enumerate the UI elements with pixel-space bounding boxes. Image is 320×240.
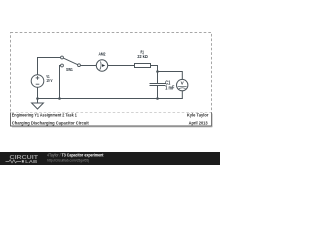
svg-text:http://circuitlab.com/c5gw55j: http://circuitlab.com/c5gw55j xyxy=(47,157,89,162)
svg-text:10 V: 10 V xyxy=(46,78,52,83)
wire junction to voltmeter top xyxy=(158,72,183,80)
svg-text:Kyle Taylor: Kyle Taylor xyxy=(187,113,209,118)
wire R1 to capacitor branch xyxy=(151,66,158,84)
node junction V1/ground xyxy=(36,97,39,100)
node junction discharge wire xyxy=(58,97,61,100)
node junction R1/C1/voltmeter xyxy=(156,70,159,73)
svg-text:SW1: SW1 xyxy=(66,67,73,72)
svg-text:1 mF: 1 mF xyxy=(165,85,174,91)
svg-text:LAB: LAB xyxy=(25,159,37,164)
CircuitLab logo zigzag xyxy=(6,160,22,163)
wire top rail from V1 to switch throw xyxy=(38,58,61,75)
wire switch common to ammeter xyxy=(80,65,96,67)
wire ammeter to R1 xyxy=(108,65,135,67)
svg-text:Engineering Y1 Assignment 2 Ta: Engineering Y1 Assignment 2 Task 1 xyxy=(12,113,78,118)
switch SW1 xyxy=(61,56,64,59)
wire capacitor bottom to ground rail xyxy=(157,86,159,99)
node junction capacitor bottom xyxy=(156,97,159,100)
wire discharge branch from switch lower throw down to ground rail xyxy=(60,66,61,99)
svg-text:April 2013: April 2013 xyxy=(189,120,209,125)
schematic dashed print border xyxy=(11,33,212,113)
voltmeter VM1 xyxy=(177,79,188,90)
ammeter AM2 xyxy=(96,60,107,71)
capacitor C1 xyxy=(150,83,166,85)
wire voltmeter bottom to ground rail xyxy=(181,91,183,99)
footer bar xyxy=(0,152,220,165)
resistor R1 xyxy=(135,64,151,68)
ground xyxy=(37,99,39,104)
title block frame xyxy=(11,113,212,127)
wire V1 bottom to ground rail xyxy=(37,87,39,98)
svg-text:Charging Discharging Capacitor: Charging Discharging Capacitor Circuit xyxy=(12,120,90,125)
wire bottom ground rail xyxy=(38,98,183,100)
svg-text:22 kΩ: 22 kΩ xyxy=(137,54,148,59)
voltage source V1 xyxy=(31,75,44,88)
svg-text:AM2: AM2 xyxy=(99,52,106,57)
